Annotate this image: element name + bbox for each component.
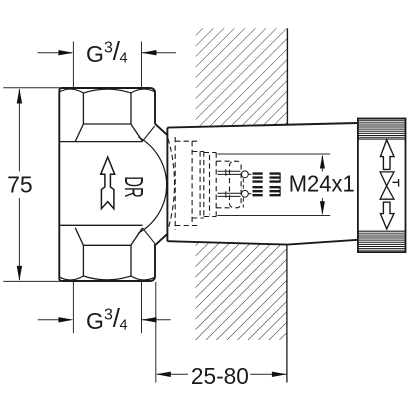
svg-text:3: 3: [104, 40, 113, 57]
svg-text:3: 3: [104, 307, 113, 324]
svg-text:G: G: [86, 308, 104, 334]
svg-text:DR: DR: [119, 176, 147, 198]
svg-text:4: 4: [120, 51, 128, 67]
svg-text:G: G: [86, 41, 104, 67]
svg-text:25-80: 25-80: [191, 363, 249, 389]
svg-text:M24x1: M24x1: [289, 171, 355, 197]
svg-text:75: 75: [7, 172, 33, 198]
svg-text:4: 4: [120, 318, 128, 334]
